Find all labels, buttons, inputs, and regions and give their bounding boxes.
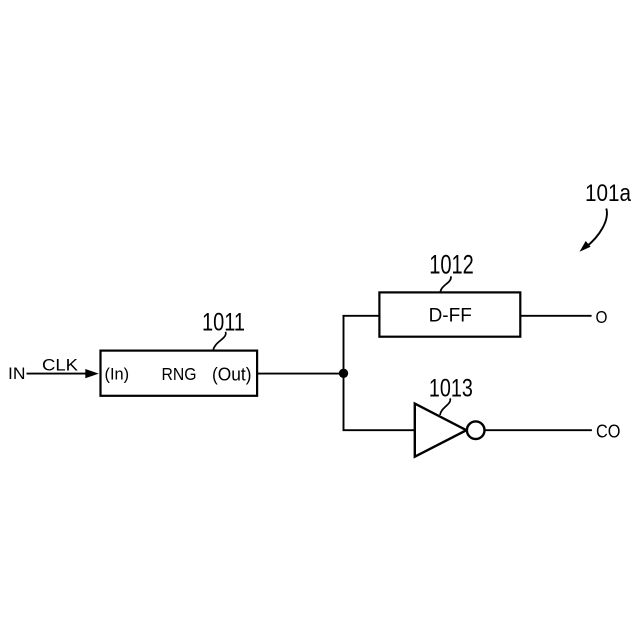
svg-text:IN: IN [8,365,26,383]
svg-text:(In): (In) [105,365,130,384]
leader squiggle 1013 [440,398,450,415]
wire inverter to CO [485,429,592,431]
leader squiggle 1012 [440,276,451,292]
svg-text:D-FF: D-FF [429,304,472,326]
svg-text:CLK: CLK [42,357,78,375]
block RNG 1011 [101,351,258,396]
wire D-FF to O [520,315,591,317]
inverter bubble [467,421,485,439]
svg-text:O: O [596,307,608,327]
svg-text:RNG: RNG [162,364,197,384]
arrowhead into RNG [85,369,99,378]
wire vertical branch [343,316,345,430]
svg-text:(Out): (Out) [212,364,252,384]
leader squiggle 1011 [213,332,226,350]
svg-text:1011: 1011 [202,308,245,336]
svg-text:101a: 101a [585,180,631,207]
wire RNG out to node [257,373,343,375]
figure pointer arrow 101a [586,209,607,248]
wire to inverter input [343,429,415,431]
svg-text:CO: CO [596,421,621,442]
block D-FF 1012 [379,292,520,336]
wire to D-FF input [343,315,380,317]
svg-text:1012: 1012 [429,250,474,280]
node junction dot [339,369,348,378]
wire IN to RNG [27,373,89,375]
inverter triangle 1013 [415,404,467,457]
